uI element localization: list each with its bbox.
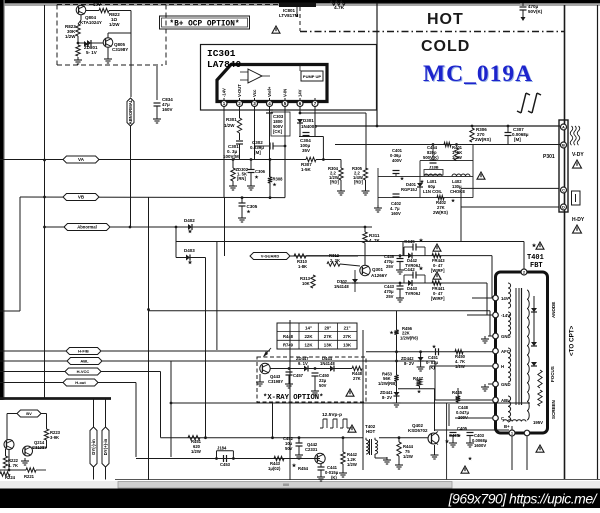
- svg-text:(K): (K): [331, 475, 337, 480]
- svg-text:R749: R749: [283, 343, 294, 348]
- svg-text:D403: D403: [184, 248, 195, 253]
- svg-text:[M]: [M]: [514, 137, 521, 142]
- svg-text:SCREEN: SCREEN: [551, 400, 556, 419]
- svg-text:1/2W: 1/2W: [191, 449, 201, 454]
- svg-text:12.5Vp-p: 12.5Vp-p: [322, 412, 342, 418]
- svg-text:C453: C453: [220, 462, 231, 467]
- svg-text:2W(RS): 2W(RS): [433, 210, 448, 215]
- svg-text:V-IN: V-IN: [283, 89, 288, 97]
- svg-text:R454: R454: [298, 466, 309, 471]
- svg-text:[RD]: [RD]: [354, 180, 363, 185]
- svg-text:A: A: [562, 125, 565, 130]
- svg-text:[969x790] https://upic.me/: [969x790] https://upic.me/: [448, 491, 599, 507]
- svg-text:★: ★: [188, 260, 193, 266]
- svg-text:50V: 50V: [285, 446, 293, 451]
- svg-text:4. 7K: 4. 7K: [369, 238, 381, 243]
- svg-text:H: H: [501, 364, 504, 369]
- svg-text:160V: 160V: [162, 107, 173, 112]
- svg-text:1-5K: 1-5K: [301, 167, 312, 172]
- svg-text:4.7K: 4.7K: [334, 5, 345, 11]
- svg-text:1/2W: 1/2W: [403, 454, 413, 459]
- svg-text:TVR06J: TVR06J: [405, 291, 421, 296]
- svg-text:10V: 10V: [93, 2, 101, 7]
- svg-text:V-OUT: V-OUT: [237, 84, 242, 97]
- svg-text:H-out: H-out: [75, 380, 86, 385]
- svg-text:1N4148: 1N4148: [334, 284, 349, 289]
- svg-text:[WIRF]: [WIRF]: [431, 296, 445, 301]
- svg-text:CHOKE: CHOKE: [450, 189, 465, 194]
- svg-text:8- 2V: 8- 2V: [382, 395, 392, 400]
- svg-text:★: ★: [419, 266, 424, 272]
- svg-text:★: ★: [445, 439, 450, 445]
- svg-text:50V: 50V: [319, 383, 327, 388]
- svg-text:IC301: IC301: [207, 48, 236, 59]
- svg-text:J184: J184: [217, 446, 227, 451]
- svg-text:R448: R448: [283, 334, 294, 339]
- svg-text:1N4148: 1N4148: [320, 361, 335, 366]
- svg-text:[CK]: [CK]: [273, 129, 283, 134]
- svg-text:1-8K: 1-8K: [298, 264, 307, 269]
- svg-text:DY(-)-in: DY(-)-in: [91, 439, 96, 455]
- svg-text:DY(+)-in: DY(+)-in: [103, 438, 108, 455]
- svg-text:13K: 13K: [324, 343, 333, 348]
- svg-text:R308: R308: [273, 177, 284, 182]
- svg-text:25V: 25V: [386, 294, 394, 299]
- svg-text:13K: 13K: [343, 343, 352, 348]
- svg-text:D: D: [562, 205, 565, 210]
- svg-text:27K: 27K: [324, 334, 333, 339]
- svg-text:FBT: FBT: [530, 262, 543, 270]
- svg-text:B+: B+: [504, 424, 510, 429]
- svg-text:KTA1024Y: KTA1024Y: [80, 20, 102, 25]
- svg-text:Abnormal: Abnormal: [77, 225, 97, 230]
- svg-text:1600V: 1600V: [474, 443, 486, 448]
- svg-text:LA7840: LA7840: [207, 59, 242, 70]
- svg-text:Vref+: Vref+: [267, 86, 272, 97]
- svg-text:1μ(02): 1μ(02): [268, 466, 281, 471]
- svg-text:J18B: J18B: [429, 165, 439, 170]
- svg-text:20": 20": [324, 325, 331, 330]
- svg-text:1/2W: 1/2W: [65, 34, 76, 39]
- svg-text:C: C: [562, 188, 565, 193]
- svg-text:H-VCC: H-VCC: [77, 369, 90, 374]
- svg-text:HOT: HOT: [427, 11, 464, 28]
- svg-text:<TO CPT>: <TO CPT>: [569, 325, 576, 356]
- svg-text:50V(K): 50V(K): [528, 9, 543, 14]
- svg-text:2W(RS): 2W(RS): [475, 137, 491, 142]
- svg-text:★: ★: [292, 463, 297, 469]
- svg-text:500V(K): 500V(K): [423, 155, 439, 160]
- svg-text:-14V: -14V: [222, 88, 227, 97]
- svg-text:GND: GND: [501, 382, 511, 387]
- svg-text:[WIRF]: [WIRF]: [431, 268, 445, 273]
- svg-text:ANODE: ANODE: [551, 302, 556, 318]
- svg-text:1/2W: 1/2W: [109, 22, 120, 27]
- svg-text:C2331: C2331: [305, 447, 318, 452]
- svg-text:A1266Y: A1266Y: [371, 273, 387, 278]
- svg-text:V-GUARD: V-GUARD: [261, 254, 280, 259]
- svg-text:LTV817M: LTV817M: [279, 13, 299, 18]
- svg-text:25V: 25V: [386, 264, 394, 269]
- svg-text:★: ★: [188, 229, 193, 235]
- svg-text:B: B: [562, 143, 565, 148]
- svg-text:14V: 14V: [298, 89, 303, 97]
- svg-text:8- 2V: 8- 2V: [404, 361, 414, 366]
- svg-text:C3198Y: C3198Y: [268, 379, 283, 384]
- svg-text:1/2W: 1/2W: [452, 155, 462, 160]
- svg-text:14V: 14V: [501, 296, 509, 301]
- svg-text:VA: VA: [78, 157, 85, 162]
- svg-text:35V: 35V: [302, 148, 310, 153]
- svg-text:14": 14": [305, 325, 312, 330]
- svg-text:ABL: ABL: [501, 398, 510, 403]
- svg-text:[RN]: [RN]: [237, 176, 246, 181]
- svg-text:Q301: Q301: [372, 267, 384, 272]
- svg-text:C442: C442: [404, 267, 415, 272]
- svg-text:COLD: COLD: [421, 38, 470, 55]
- svg-text:R224: R224: [5, 475, 16, 480]
- svg-text:HDT: HDT: [366, 429, 375, 434]
- svg-text:9. 1V: 9. 1V: [298, 361, 308, 366]
- svg-text:2. 2K: 2. 2K: [330, 258, 340, 263]
- svg-text:BV: BV: [26, 411, 32, 416]
- svg-text:L1N COIL: L1N COIL: [423, 189, 443, 194]
- svg-text:R221: R221: [24, 474, 35, 479]
- svg-text:ABNORMAL: ABNORMAL: [128, 99, 133, 124]
- svg-text:1/2W: 1/2W: [224, 123, 235, 128]
- svg-text:R301: R301: [226, 117, 237, 122]
- svg-text:195V: 195V: [533, 420, 543, 425]
- svg-text:C457: C457: [293, 373, 304, 378]
- svg-text:12K: 12K: [304, 343, 313, 348]
- svg-text:H-DY: H-DY: [572, 217, 585, 223]
- svg-text:1/2W(R6): 1/2W(R6): [400, 336, 419, 341]
- svg-text:C405: C405: [457, 426, 468, 431]
- svg-text:1N4005: 1N4005: [301, 124, 317, 129]
- svg-text:ABL: ABL: [80, 359, 89, 364]
- svg-text:400V: 400V: [392, 158, 402, 163]
- svg-text:160V: 160V: [391, 211, 401, 216]
- svg-text:P301: P301: [543, 154, 555, 160]
- svg-text:V-DY: V-DY: [572, 152, 584, 158]
- svg-text:4. 7K: 4. 7K: [8, 463, 18, 468]
- svg-text:22K: 22K: [304, 334, 313, 339]
- svg-text:C3198Y: C3198Y: [112, 47, 128, 52]
- svg-text:MC_019A: MC_019A: [423, 61, 533, 87]
- svg-text:Vcc: Vcc: [252, 89, 257, 97]
- svg-text:3-9K: 3-9K: [50, 435, 59, 440]
- svg-text:VB: VB: [78, 195, 85, 200]
- svg-text:[M]: [M]: [254, 150, 261, 155]
- svg-text:1/2W(RB): 1/2W(RB): [378, 381, 397, 386]
- svg-text:PUMP UP: PUMP UP: [303, 74, 321, 79]
- svg-text:T401: T401: [527, 254, 544, 262]
- svg-text:FOCUS: FOCUS: [550, 366, 555, 382]
- svg-text:D402: D402: [184, 218, 195, 223]
- svg-text:21": 21": [344, 325, 351, 330]
- svg-text:1/2W: 1/2W: [347, 462, 357, 467]
- svg-text:5- 1V: 5- 1V: [86, 50, 97, 55]
- svg-text:27K: 27K: [343, 334, 352, 339]
- svg-text:100V(M): 100V(M): [223, 154, 241, 159]
- svg-text:KSD5702: KSD5702: [408, 428, 428, 433]
- svg-text:C306: C306: [255, 169, 266, 174]
- svg-text:RGP15J: RGP15J: [401, 187, 418, 192]
- svg-text:[RD]: [RD]: [330, 180, 339, 185]
- svg-text:H-F/B: H-F/B: [78, 349, 89, 354]
- svg-text:10K: 10K: [302, 281, 310, 286]
- svg-text:27K: 27K: [353, 376, 361, 381]
- svg-text:D301: D301: [303, 118, 314, 123]
- svg-text:*B+ OCP OPTION*: *B+ OCP OPTION*: [169, 20, 239, 28]
